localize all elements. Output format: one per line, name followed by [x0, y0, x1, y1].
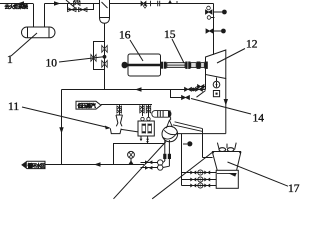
motor box 16 — [128, 54, 161, 76]
branch line row 1 — [182, 170, 217, 175]
valve on main line — [74, 1, 81, 5]
shaft through motor — [122, 64, 161, 66]
arrow right on top line — [54, 1, 61, 6]
wire bypass 10 — [94, 42, 105, 70]
vessel separator — [100, 0, 110, 23]
ejector cone 11 — [116, 115, 122, 126]
wire left downcomer — [61, 90, 63, 165]
vent arrow on top line — [168, 0, 172, 3]
instrument dot near pump — [183, 143, 187, 145]
wire discharge drop to tank — [203, 129, 213, 158]
pump P1 — [162, 126, 178, 142]
wire down to cyclone 12 — [213, 4, 215, 55]
valve 10a — [102, 46, 107, 53]
leader to tank (cut label) — [152, 152, 212, 198]
svg-text:14: 14 — [253, 113, 265, 125]
manifold lines left — [141, 163, 158, 168]
branch line row 2 — [182, 177, 217, 182]
flag water return — [22, 161, 45, 168]
wire bottom water line — [45, 164, 144, 166]
valve stub filter b — [148, 105, 150, 118]
wire flare line top-left — [0, 3, 33, 5]
leader to pump (cut label) — [114, 142, 167, 199]
heater pill — [152, 111, 171, 118]
valve on top line — [141, 1, 146, 5]
tank under hopper — [216, 170, 238, 188]
leader label 16 — [130, 40, 143, 61]
valve stub filter a — [142, 105, 144, 117]
svg-text:15: 15 — [164, 29, 176, 41]
instrument square under cyclone — [213, 91, 219, 97]
valve stub to ejector — [119, 105, 121, 116]
leader label 14 — [191, 99, 251, 115]
svg-text:12: 12 — [246, 39, 258, 51]
wire pill outlet — [170, 117, 172, 120]
node dot — [103, 55, 107, 59]
wire separator bottom stub — [104, 23, 106, 41]
filter drains — [141, 136, 148, 139]
wire cyclone right downpipe — [225, 79, 227, 134]
svg-text:16: 16 — [119, 30, 131, 42]
wire water return header — [62, 89, 206, 91]
arrow down on downpipe — [224, 99, 228, 106]
svg-text:低压蒸汽: 低压蒸汽 — [77, 102, 97, 110]
valve bypass 2 — [79, 8, 88, 12]
leader label 12 — [217, 49, 245, 64]
flange ticks on top line — [151, 1, 160, 6]
leader label 1 — [11, 33, 37, 56]
valve 14 group on header — [171, 87, 206, 99]
svg-text:去火炬系统: 去火炬系统 — [5, 2, 29, 10]
wire pump side line to downpipe — [178, 133, 226, 135]
arrow to flare (left) — [18, 1, 25, 6]
flag steam inlet — [76, 101, 101, 109]
valve instrument cluster lower — [206, 29, 226, 34]
valve stub left of cyclone — [197, 86, 206, 88]
filter box — [138, 121, 154, 136]
wire top main line to separator — [45, 3, 100, 5]
svg-text:循环水回: 循环水回 — [28, 162, 46, 169]
leader label 15 — [172, 39, 184, 63]
valve bypass 1 — [68, 8, 77, 12]
arrow left on header — [135, 87, 142, 91]
drain tick valve — [146, 141, 149, 144]
leader label 17 — [228, 162, 289, 186]
drum D1 — [22, 27, 56, 38]
arrow left on bottom line — [94, 162, 101, 166]
leader label 10 — [59, 57, 104, 62]
arrow down on downcomer — [59, 127, 63, 133]
wire cup to filter — [121, 129, 138, 132]
wire bypass loop — [68, 4, 94, 10]
hopper 17 top — [212, 152, 241, 171]
wire drain corner line — [114, 144, 165, 165]
funnel cup 11 — [110, 128, 121, 133]
valve slash — [66, 0, 77, 10]
cyclone 12 body — [206, 50, 226, 79]
chute above hopper — [217, 143, 236, 150]
valve instrument cluster upper — [206, 6, 227, 19]
valve group 10 main — [104, 42, 106, 90]
wire top line right — [110, 3, 214, 5]
wire branch downcomer — [181, 134, 183, 186]
wire cyclone left ext — [205, 75, 207, 90]
svg-text:11: 11 — [8, 101, 19, 113]
wire steam header — [101, 104, 152, 106]
branch line row 3 — [182, 183, 217, 188]
instrument circle under cyclone — [216, 78, 218, 82]
leader label 11 — [22, 107, 110, 128]
screw conveyor 15 — [161, 62, 208, 69]
wire drum nozzle left — [33, 4, 35, 28]
pump legs — [165, 140, 170, 166]
valve 10b — [102, 61, 107, 68]
gauge on bottom line — [128, 151, 135, 158]
valve 10c bypass — [91, 55, 96, 62]
bearing blob left — [122, 62, 128, 69]
svg-text:1: 1 — [7, 54, 13, 66]
wire pump discharge upper — [173, 122, 203, 132]
svg-text:17: 17 — [288, 183, 300, 195]
svg-text:10: 10 — [46, 58, 58, 70]
wire drum nozzle right — [44, 4, 46, 28]
elbow circles — [158, 160, 163, 165]
